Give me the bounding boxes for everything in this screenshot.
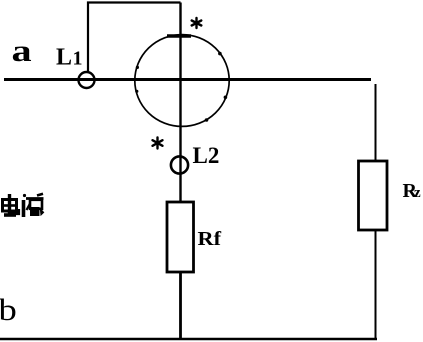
wire: right vertical branch: [375, 84, 377, 340]
node L2 (circle on center vertical): [171, 156, 188, 173]
label 电源 (power source) char 电: [3, 194, 19, 215]
svg-text:L: L: [56, 45, 72, 71]
wire: top feedback loop: [88, 3, 181, 72]
node L1 (circle on wire a): [79, 72, 95, 88]
polarity mark * (top): [192, 18, 202, 28]
svg-text:z: z: [414, 185, 421, 201]
wire: center vertical through transformer: [179, 3, 181, 204]
wire: bottom horizontal line b: [0, 338, 377, 341]
transformer T1 (circle): [135, 35, 229, 127]
svg-text:Rf: Rf: [198, 228, 223, 250]
resistor Rf (rectangle): [167, 202, 194, 272]
wire: below Rf to bottom: [179, 271, 182, 340]
wire: top horizontal line a: [4, 78, 371, 81]
svg-text:L2: L2: [193, 143, 220, 168]
svg-text:b: b: [0, 293, 17, 327]
polarity mark * (bottom): [153, 138, 163, 149]
svg-text:a: a: [12, 33, 32, 67]
resistor Rz (rectangle): [359, 161, 388, 230]
label 电源 (power source) char 源: [23, 194, 44, 217]
transformer T1 thick top segment: [167, 34, 191, 37]
svg-text:1: 1: [73, 48, 83, 70]
transformer T1 edge dots: [135, 52, 227, 122]
